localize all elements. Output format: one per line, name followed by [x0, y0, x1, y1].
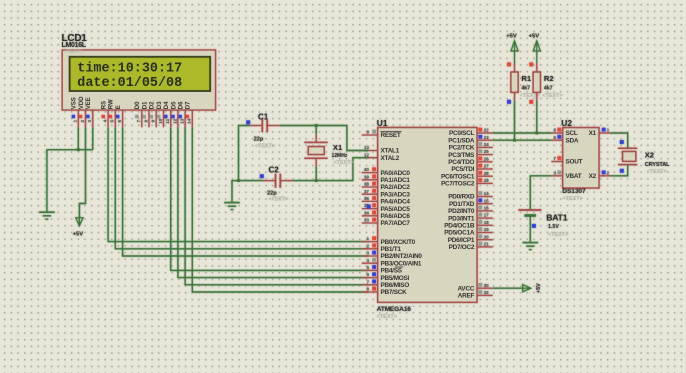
LCD LCD1 body — [62, 50, 215, 110]
svg-text:+5V: +5V — [506, 34, 517, 40]
svg-text:D5: D5 — [171, 101, 177, 109]
svg-text:PD7/OC2: PD7/OC2 — [449, 244, 475, 251]
wire D5 to PB5 — [178, 127, 369, 277]
svg-text:<TEXT>: <TEXT> — [334, 160, 354, 166]
svg-text:22: 22 — [484, 128, 490, 133]
U1 pin 29 PC7/TOSC2 — [477, 182, 493, 184]
wire VDD pin2 to +5V — [79, 127, 85, 218]
svg-text:1: 1 — [73, 120, 79, 123]
resistor R1 4k7 — [514, 42, 516, 64]
U1 pin 35 PA5/ADC5 — [362, 208, 378, 210]
U1 pin 5 PB4/SS — [362, 269, 378, 271]
svg-text:LM016L: LM016L — [62, 42, 87, 49]
junction VSS — [77, 148, 80, 151]
svg-text:39: 39 — [364, 174, 370, 179]
junction R1/SDA — [513, 139, 516, 142]
wire R1 to SDA — [514, 101, 516, 140]
U1 pin 32 AREF — [477, 294, 493, 296]
svg-text:<TEXT>: <TEXT> — [647, 169, 667, 175]
U2 pin 2 X2 — [599, 175, 610, 177]
svg-text:20: 20 — [484, 234, 490, 239]
svg-text:D4: D4 — [164, 101, 170, 109]
U1 pin 40 PA0/ADC0 — [362, 172, 378, 174]
svg-text:PD3/INT1: PD3/INT1 — [448, 215, 475, 222]
power +5V (AVCC, arrow right) — [523, 285, 531, 292]
svg-text:6: 6 — [117, 120, 123, 123]
U1 pin 39 PA1/ADC1 — [362, 179, 378, 181]
svg-text:BAT1: BAT1 — [546, 212, 567, 222]
wire D6 to PB6 — [185, 127, 368, 284]
junction R2/SCL — [535, 132, 538, 135]
svg-text:22p: 22p — [267, 191, 277, 197]
svg-text:3: 3 — [553, 170, 556, 175]
svg-text:30: 30 — [484, 283, 490, 288]
svg-text:+5V: +5V — [529, 34, 540, 40]
svg-text:<TEXT>: <TEXT> — [548, 232, 568, 238]
svg-text:PB7/SCK: PB7/SCK — [381, 289, 408, 296]
svg-text:AREF: AREF — [458, 293, 475, 300]
svg-text:36: 36 — [364, 196, 370, 201]
svg-text:date:01/05/08: date:01/05/08 — [77, 76, 182, 91]
svg-text:40: 40 — [364, 167, 370, 172]
svg-text:2: 2 — [607, 170, 610, 175]
svg-text:PD6/ICP1: PD6/ICP1 — [448, 237, 475, 244]
svg-text:3: 3 — [366, 251, 369, 256]
svg-text:X1: X1 — [333, 143, 343, 152]
U1 pin 7 PB6/MISO — [362, 284, 378, 286]
junction X1 bottom — [315, 179, 318, 182]
svg-text:PD2/INT0: PD2/INT0 — [448, 208, 475, 215]
ground (LCD supply) — [39, 211, 55, 213]
wire C2 to XTAL2 — [293, 158, 369, 181]
wire D7 to PB7 — [192, 127, 368, 292]
svg-text:PA4/ADC4: PA4/ADC4 — [381, 199, 411, 206]
svg-text:X2: X2 — [589, 173, 597, 180]
svg-text:VBAT: VBAT — [566, 173, 582, 180]
U1 pin 19 PD5/OC1A — [477, 232, 493, 234]
svg-text:PA2/ADC2: PA2/ADC2 — [381, 184, 411, 191]
power +5V (LCD, arrow down) — [76, 218, 83, 226]
svg-text:2: 2 — [366, 243, 369, 248]
svg-text:PB6/MISO: PB6/MISO — [381, 282, 410, 289]
wire crystal X1 bottom — [315, 166, 317, 180]
svg-text:<TEXT>: <TEXT> — [64, 49, 84, 55]
svg-text:37: 37 — [364, 189, 370, 194]
wire SDA PC1 to U2 — [493, 139, 552, 141]
svg-text:SDA: SDA — [566, 137, 579, 144]
svg-text:13: 13 — [364, 145, 370, 150]
svg-text:D0: D0 — [135, 101, 141, 109]
svg-text:VSS: VSS — [72, 97, 78, 109]
wire VSS pin1 down — [77, 127, 79, 149]
svg-text:32: 32 — [484, 290, 490, 295]
svg-text:PB0/XCK/T0: PB0/XCK/T0 — [381, 239, 416, 246]
svg-text:22p: 22p — [254, 136, 264, 142]
svg-text:12: 12 — [364, 152, 370, 157]
svg-text:6: 6 — [553, 128, 556, 133]
U1 stray blue marker near pin 35 — [367, 205, 371, 209]
U1 pin 36 PA4/ADC4 — [362, 200, 378, 202]
svg-text:PD5/OC1A: PD5/OC1A — [444, 230, 475, 237]
svg-text:5: 5 — [110, 120, 116, 123]
svg-text:15: 15 — [484, 198, 490, 203]
U1 pin 25 PC3/TMS — [477, 154, 493, 156]
svg-text:PC0/SCL: PC0/SCL — [449, 130, 475, 137]
svg-text:PA0/ADC0: PA0/ADC0 — [381, 170, 411, 177]
wire RS to PB0 — [108, 127, 368, 241]
svg-text:U1: U1 — [377, 118, 388, 128]
svg-text:21: 21 — [484, 242, 490, 247]
svg-text:9: 9 — [151, 120, 157, 123]
wire RW to PB1 — [115, 127, 368, 249]
U1 pin 2 PB1/T1 — [362, 248, 378, 250]
wire C2 left to ground — [232, 181, 263, 202]
svg-text:5: 5 — [553, 135, 556, 140]
U1 pin 4 PB3/OC0/AIN1 — [362, 262, 378, 264]
U1 pin 14 PD0/RXD — [477, 196, 493, 198]
svg-text:4: 4 — [366, 258, 369, 263]
crystal X1 — [304, 141, 327, 143]
U2 pin 5 SDA — [551, 139, 562, 141]
svg-text:23: 23 — [484, 135, 490, 140]
svg-text:9: 9 — [366, 130, 369, 135]
svg-text:8: 8 — [143, 120, 149, 123]
junction C1/C2 left — [237, 179, 240, 182]
U2 pin 1 X1 — [599, 132, 610, 134]
svg-text:26: 26 — [484, 156, 490, 161]
svg-text:14: 14 — [484, 191, 490, 196]
U1 pin 37 PA3/ADC3 — [362, 193, 378, 195]
svg-text:X2: X2 — [645, 151, 654, 160]
svg-text:12: 12 — [172, 118, 178, 124]
svg-text:29: 29 — [484, 178, 490, 183]
svg-text:16: 16 — [484, 206, 490, 211]
svg-text:7: 7 — [366, 279, 369, 284]
svg-text:PC1/SDA: PC1/SDA — [448, 137, 475, 144]
svg-text:8: 8 — [366, 287, 369, 292]
svg-text:24: 24 — [484, 142, 490, 147]
wire U2 X2 to crystal — [610, 165, 627, 176]
U1 pin 22 PC0/SCL — [477, 132, 493, 134]
svg-text:33: 33 — [364, 218, 370, 223]
U1 pin 20 PD6/ICP1 — [477, 239, 493, 241]
svg-text:RESET: RESET — [381, 132, 401, 139]
svg-text:RS: RS — [102, 101, 108, 109]
svg-text:2: 2 — [80, 120, 86, 123]
svg-text:U2: U2 — [561, 118, 572, 128]
svg-text:PD1/TXD: PD1/TXD — [449, 201, 475, 208]
resistor R2 4k7 — [536, 42, 538, 64]
svg-text:PA7/ADC7: PA7/ADC7 — [381, 220, 411, 227]
svg-text:<TEXT>: <TEXT> — [562, 196, 582, 202]
svg-text:27: 27 — [484, 164, 490, 169]
IC U2 DS1307 body — [563, 128, 599, 188]
svg-text:D1: D1 — [142, 101, 148, 109]
svg-text:<TEXT>: <TEXT> — [542, 93, 562, 99]
svg-text:PD4/OC1B: PD4/OC1B — [444, 223, 475, 230]
svg-text:25: 25 — [484, 149, 490, 154]
svg-text:4k7: 4k7 — [544, 86, 553, 92]
U2 pin 6 SCL — [551, 132, 562, 134]
svg-text:PA3/ADC3: PA3/ADC3 — [381, 191, 411, 198]
svg-text:C2: C2 — [269, 165, 280, 174]
U1 pin 21 PD7/OC2 — [477, 246, 493, 248]
svg-text:AVCC: AVCC — [458, 285, 475, 292]
U1 pin 23 PC1/SDA — [477, 139, 493, 141]
svg-text:7: 7 — [553, 156, 556, 161]
wire VSS/VEE to ground — [47, 150, 93, 212]
U1 pin 12 XTAL2 — [362, 157, 378, 159]
svg-text:PA5/ADC5: PA5/ADC5 — [381, 206, 411, 213]
wire R2 to SCL — [536, 101, 538, 133]
svg-text:+5V: +5V — [73, 232, 84, 238]
svg-text:PC7/TOSC2: PC7/TOSC2 — [441, 181, 475, 188]
U1 pin 16 PD2/INT0 — [477, 210, 493, 212]
svg-text:ATMEGA16: ATMEGA16 — [377, 306, 412, 313]
svg-text:11: 11 — [165, 118, 171, 123]
svg-text:SOUT: SOUT — [566, 159, 583, 166]
svg-text:PB3/OC0/AIN1: PB3/OC0/AIN1 — [381, 260, 422, 267]
U1 pin 6 PB5/MOSI — [362, 277, 378, 279]
svg-text:R1: R1 — [521, 74, 531, 83]
svg-text:PA6/ADC6: PA6/ADC6 — [381, 213, 411, 220]
svg-text:D2: D2 — [150, 101, 156, 109]
wire VEE pin3 down — [92, 127, 94, 149]
U1 pin 13 XTAL1 — [362, 150, 378, 152]
svg-text:1: 1 — [607, 128, 610, 133]
U1 pin 34 PA6/ADC6 — [362, 215, 378, 217]
svg-text:1: 1 — [366, 236, 369, 241]
svg-text:PB4/SS: PB4/SS — [381, 268, 403, 275]
ground (crystal caps) — [224, 202, 240, 204]
svg-text:PC6/TOSC1: PC6/TOSC1 — [441, 173, 475, 180]
U2 pin 3 VBAT — [551, 175, 562, 177]
svg-text:<TEXT>: <TEXT> — [377, 314, 397, 320]
svg-text:4k7: 4k7 — [521, 86, 530, 92]
svg-text:VDD: VDD — [79, 96, 85, 109]
crystal X2 — [618, 147, 637, 149]
svg-text:<TEXT>: <TEXT> — [268, 197, 288, 203]
U1 pin 15 PD1/TXD — [477, 203, 493, 205]
U1 pin 33 PA7/ADC7 — [362, 222, 378, 224]
svg-text:18: 18 — [484, 220, 490, 225]
svg-text:D7: D7 — [186, 101, 192, 109]
svg-text:34: 34 — [364, 210, 370, 215]
wire E to PB2 — [123, 127, 369, 256]
svg-text:38: 38 — [364, 182, 370, 187]
svg-text:28: 28 — [484, 171, 490, 176]
svg-text:XTAL2: XTAL2 — [381, 155, 400, 162]
svg-text:PC2/TCK: PC2/TCK — [449, 145, 475, 152]
wire SCL PC0 to U2 — [493, 132, 552, 134]
wire D4 to PB4 — [171, 127, 369, 270]
U1 pin 9 RESET — [362, 134, 378, 136]
U1 pin 27 PC5/TDI — [477, 168, 493, 170]
svg-text:X1: X1 — [589, 130, 597, 137]
svg-text:DS1307: DS1307 — [562, 188, 586, 195]
svg-text:<TEXT>: <TEXT> — [255, 143, 275, 149]
svg-text:13: 13 — [180, 118, 186, 124]
svg-text:D6: D6 — [179, 101, 185, 109]
svg-text:6: 6 — [366, 272, 369, 277]
svg-text:VEE: VEE — [86, 97, 92, 109]
svg-text:1.5V: 1.5V — [548, 224, 559, 230]
svg-text:5: 5 — [366, 265, 369, 270]
battery BAT1 — [518, 209, 541, 211]
svg-text:PC3/TMS: PC3/TMS — [448, 152, 475, 159]
U1 pin 26 PC4/TDO — [477, 161, 493, 163]
svg-text:12MHz: 12MHz — [332, 153, 348, 159]
U1 pin 1 PB0/XCK/T0 — [362, 241, 378, 243]
U1 pin 38 PA2/ADC2 — [362, 186, 378, 188]
U1 pin 18 PD4/OC1B — [477, 224, 493, 226]
wire AVCC to +5V — [493, 287, 523, 289]
svg-text:CRYSTAL: CRYSTAL — [645, 162, 670, 168]
U1 pin 30 AVCC — [477, 287, 493, 289]
U1 pin 28 PC6/TOSC1 — [477, 175, 493, 177]
svg-text:XTAL1: XTAL1 — [381, 148, 400, 155]
svg-text:17: 17 — [484, 213, 490, 218]
wire U2 X1 to crystal — [610, 133, 627, 148]
LCD LCD1 screen — [70, 57, 211, 91]
junction X1 top — [315, 124, 318, 127]
U1 pin 24 PC2/TCK — [477, 146, 493, 148]
svg-text:PB1/T1: PB1/T1 — [381, 246, 402, 253]
svg-text:PA1/ADC1: PA1/ADC1 — [381, 177, 411, 184]
svg-text:RW: RW — [109, 99, 115, 109]
wire crystal X1 top — [315, 126, 317, 135]
svg-text:PB5/MOSI: PB5/MOSI — [381, 275, 410, 282]
svg-text:E: E — [116, 105, 122, 109]
U1 pin 3 PB2/INT2/AIN0 — [362, 255, 378, 257]
wire C1 to XTAL1 — [280, 126, 369, 151]
ground (battery) — [523, 242, 539, 244]
wire battery to ground — [529, 216, 531, 242]
svg-text:SCL: SCL — [566, 130, 578, 137]
svg-text:4: 4 — [103, 120, 109, 123]
wire C1 left down — [239, 126, 250, 181]
svg-text:10: 10 — [158, 118, 164, 124]
svg-text:+5V: +5V — [536, 283, 542, 293]
wire U2 VBAT to battery — [530, 176, 551, 210]
svg-text:R2: R2 — [544, 74, 554, 83]
svg-text:time:10:30:17: time:10:30:17 — [77, 61, 182, 76]
svg-text:14: 14 — [187, 118, 193, 124]
svg-text:19: 19 — [484, 227, 490, 232]
svg-text:PC4/TDO: PC4/TDO — [448, 159, 474, 166]
svg-text:D3: D3 — [157, 101, 163, 109]
svg-text:PD0/RXD: PD0/RXD — [448, 194, 475, 201]
U1 pin 8 PB7/SCK — [362, 291, 378, 293]
svg-text:PB2/INT2/AIN0: PB2/INT2/AIN0 — [381, 253, 423, 260]
IC U1 ATMEGA16 body — [378, 128, 477, 303]
U1 pin 17 PD3/INT1 — [477, 217, 493, 219]
svg-text:PC5/TDI: PC5/TDI — [451, 166, 474, 173]
U2 pin 7 SOUT — [551, 161, 562, 163]
svg-text:3: 3 — [87, 120, 93, 123]
svg-text:7: 7 — [136, 120, 142, 123]
